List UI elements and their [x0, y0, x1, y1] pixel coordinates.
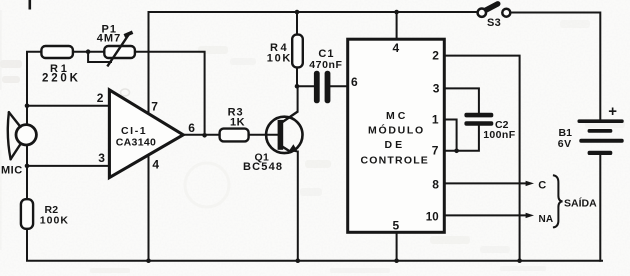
svg-text:1: 1 — [432, 113, 439, 127]
svg-text:10: 10 — [426, 212, 439, 224]
svg-text:470nF: 470nF — [309, 59, 342, 71]
svg-text:4: 4 — [152, 158, 159, 172]
svg-text:C: C — [538, 180, 546, 192]
svg-text:5: 5 — [393, 219, 400, 233]
svg-text:100nF: 100nF — [483, 129, 516, 141]
svg-text:7: 7 — [151, 100, 158, 114]
svg-text:1K: 1K — [230, 117, 245, 129]
svg-text:MÓDULO: MÓDULO — [368, 123, 425, 136]
svg-text:BC548: BC548 — [243, 161, 283, 173]
svg-text:CA3140: CA3140 — [116, 137, 156, 149]
svg-text:2: 2 — [97, 91, 104, 105]
svg-text:6: 6 — [351, 75, 358, 89]
svg-text:2: 2 — [432, 49, 439, 63]
svg-text:100K: 100K — [40, 214, 69, 226]
svg-text:8: 8 — [432, 178, 439, 192]
svg-text:MC: MC — [386, 110, 408, 122]
svg-text:6V: 6V — [558, 138, 572, 150]
svg-text:4M7: 4M7 — [97, 33, 121, 45]
svg-text:3: 3 — [98, 151, 105, 165]
svg-text:10K: 10K — [267, 52, 292, 64]
svg-text:220K: 220K — [42, 73, 81, 85]
svg-text:S3: S3 — [487, 17, 501, 29]
svg-text:CI-1: CI-1 — [121, 125, 147, 137]
svg-text:MIC: MIC — [1, 164, 23, 176]
svg-text:6: 6 — [188, 121, 195, 135]
svg-text:DE: DE — [385, 139, 406, 151]
svg-text:NA: NA — [539, 214, 554, 225]
svg-text:7: 7 — [432, 144, 439, 158]
svg-text:+: + — [608, 103, 617, 120]
svg-text:SAÍDA: SAÍDA — [564, 197, 597, 210]
svg-text:CONTROLE: CONTROLE — [361, 155, 430, 167]
svg-text:3: 3 — [433, 81, 440, 95]
svg-text:4: 4 — [393, 41, 400, 55]
